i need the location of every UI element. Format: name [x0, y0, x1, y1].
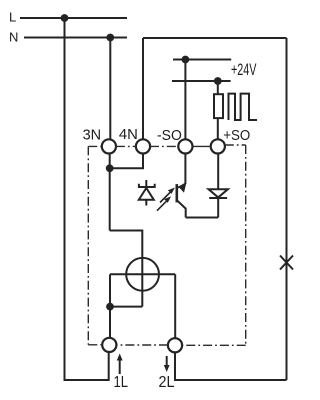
junction dot above 1L	[106, 303, 114, 311]
svg-text:2L: 2L	[159, 374, 175, 391]
dash-dot enclosure boundary	[88, 145, 245, 345]
resistor R1	[217, 81, 219, 94]
terminal 1L	[102, 338, 116, 352]
svg-text:-SO: -SO	[157, 127, 182, 144]
terminal -SO	[178, 139, 192, 153]
svg-text:+SO: +SO	[223, 127, 250, 144]
wire bottom right to 2L	[175, 352, 287, 380]
wire cross-right down to 2L	[174, 274, 176, 338]
wire cross-left down to 1L	[109, 274, 111, 338]
light arrow 2	[157, 200, 168, 211]
zener diode D1	[145, 180, 147, 188]
terminal 4N	[136, 139, 150, 153]
enclosure box right edge wire down	[286, 38, 288, 380]
junction dot rail2/resistor	[214, 77, 222, 85]
light arrow 1	[160, 191, 172, 203]
boundary 3N-4N	[116, 145, 136, 147]
boundary to 2L	[182, 344, 246, 346]
boundary -SO-+SO	[192, 145, 210, 147]
X mark on right wire	[280, 256, 293, 270]
svg-text:+24V: +24V	[231, 61, 257, 79]
arrow up at 1L	[119, 357, 121, 374]
enclosure box left edge to 4N	[142, 38, 144, 139]
wire SO bottom link	[186, 217, 219, 219]
wire N line	[24, 37, 127, 39]
junction dot on L	[61, 14, 69, 22]
junction dot 3N/4N	[106, 164, 114, 172]
pulse waveform symbol	[229, 94, 258, 120]
wire left outer loop from L to 1L	[65, 18, 109, 380]
svg-text:4N: 4N	[119, 126, 138, 143]
current transformer CT	[126, 258, 159, 291]
enclosure box top edge	[143, 37, 287, 39]
boundary 4N--SO	[150, 145, 178, 147]
wire N to 3N	[109, 38, 111, 140]
svg-text:1L: 1L	[114, 374, 129, 391]
wire -SO vertical	[184, 60, 186, 140]
arrow down at 2L	[166, 356, 168, 369]
svg-text:3N: 3N	[83, 127, 102, 144]
wire 3N down to junction	[109, 153, 111, 230]
wire 4N down and left to junction	[110, 153, 143, 168]
svg-text:N: N	[9, 29, 18, 44]
wire CT bottom to 1L junction	[110, 306, 142, 308]
terminal 3N	[102, 139, 116, 153]
svg-text:L: L	[9, 9, 16, 24]
terminal +SO	[211, 139, 225, 153]
wire jog to CT	[110, 231, 143, 307]
+24V rail line 2	[172, 80, 231, 82]
CT cross horizontal	[110, 273, 175, 275]
junction dot rail1/-SO	[182, 56, 190, 64]
optocoupler phototransistor Q1	[184, 153, 186, 184]
junction dot on N	[106, 34, 114, 42]
+24V rail line 1	[173, 59, 231, 61]
boundary to 1L	[88, 344, 102, 346]
boundary left vertical	[87, 146, 89, 344]
boundary 2L-1L	[117, 344, 169, 346]
boundary left horizontal to 3N	[88, 145, 102, 147]
diode D2 under +SO	[217, 154, 219, 189]
boundary right vertical	[245, 145, 247, 345]
wire L line	[20, 17, 127, 19]
collector junction wedge	[178, 183, 186, 193]
terminal 2L	[168, 338, 182, 352]
boundary right of +SO	[225, 144, 246, 146]
